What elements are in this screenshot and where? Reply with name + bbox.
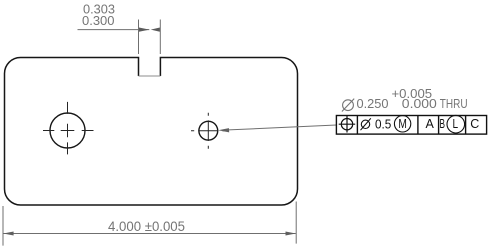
- svg-text:0.250: 0.250: [357, 96, 389, 111]
- svg-text:A: A: [426, 117, 435, 131]
- svg-text:0.300: 0.300: [82, 14, 115, 28]
- svg-text:THRU: THRU: [440, 96, 468, 111]
- svg-text:0.5: 0.5: [375, 117, 391, 132]
- svg-text:B: B: [440, 117, 446, 131]
- svg-text:4.000 ±0.005: 4.000 ±0.005: [108, 219, 185, 234]
- svg-text:C: C: [470, 117, 479, 131]
- svg-text:0.000: 0.000: [402, 96, 437, 111]
- svg-text:L: L: [453, 116, 459, 131]
- svg-text:M: M: [398, 116, 407, 131]
